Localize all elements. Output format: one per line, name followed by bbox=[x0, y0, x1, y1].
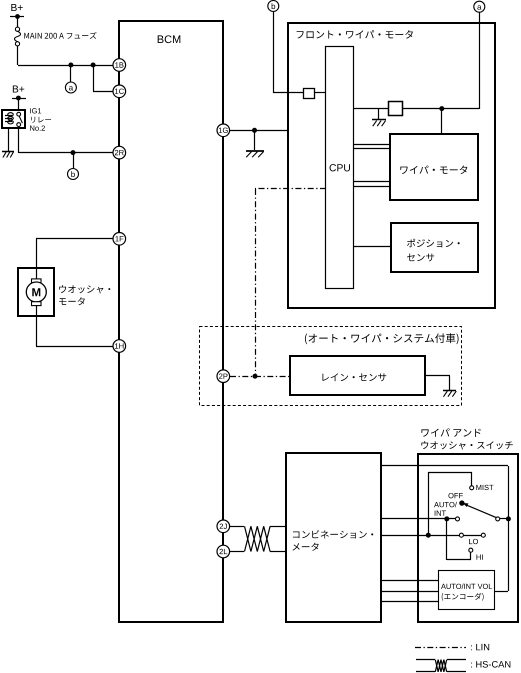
pin 2P bbox=[217, 370, 230, 383]
pin 1F bbox=[113, 233, 126, 246]
label MAIN 200 A fuse bbox=[24, 32, 96, 39]
combination meter box bbox=[286, 453, 381, 622]
power B+ terminal (top left) bbox=[11, 4, 22, 11]
ground (front wiper motor) bbox=[372, 119, 386, 121]
junction AUTO/INT bbox=[444, 516, 449, 521]
junction on LIN bus bbox=[253, 374, 258, 379]
node b (circle b, left) bbox=[68, 169, 79, 180]
front wiper motor assembly box bbox=[288, 23, 495, 308]
wire B+ to relay bbox=[18, 98, 20, 110]
legend HS-CAN sample bbox=[416, 659, 435, 661]
wire stub to ground bbox=[254, 130, 256, 150]
wire combination meter LO line bbox=[381, 535, 459, 537]
BCM module box bbox=[119, 21, 223, 622]
wire CPU to position sensor bbox=[353, 246, 391, 248]
wire pin 1F to washer motor bbox=[36, 238, 113, 240]
pin 1G bbox=[217, 124, 230, 137]
wiper motor box bbox=[390, 134, 478, 200]
wire stub to node a bbox=[70, 65, 72, 82]
ground (relay coil) bbox=[2, 151, 14, 153]
wiper and washer switch box bbox=[418, 454, 518, 622]
junction above wiper motor bbox=[439, 106, 444, 111]
relay IG1 No.2 bbox=[2, 110, 25, 128]
wire square to node a and wiper motor bbox=[402, 108, 479, 110]
wire node b to CPU bbox=[273, 12, 275, 93]
wire twisted pair to combination meter bbox=[270, 526, 286, 528]
position sensor box bbox=[391, 223, 478, 272]
wire MIST loop bbox=[428, 472, 430, 535]
node a (circle a, top) bbox=[474, 1, 485, 12]
wire washer motor to pin 1H bbox=[36, 316, 38, 346]
wire relay coil to ground bbox=[8, 128, 10, 151]
pin 1B bbox=[113, 59, 126, 72]
power B+ terminal (second) bbox=[13, 85, 24, 92]
label AUTO/INT VOL encoder bbox=[441, 584, 492, 589]
wire combination meter to switch common rail bbox=[381, 465, 508, 467]
auto wiper system dashed boundary bbox=[200, 327, 462, 406]
wire pair CPU to wiper motor (upper) bbox=[353, 144, 390, 146]
junction to pin 1C bbox=[91, 63, 96, 68]
wire B+ to fuse bbox=[17, 16, 19, 27]
wire combination meter AUTO/INT line bbox=[381, 518, 456, 520]
node a (circle a, left) bbox=[65, 82, 76, 93]
pin 2L bbox=[217, 545, 230, 558]
pin 2R bbox=[113, 146, 126, 159]
junction node a bbox=[68, 63, 73, 68]
connector square on b wire bbox=[304, 89, 315, 99]
label washer motor bbox=[59, 285, 110, 293]
junction arm to rail bbox=[506, 516, 511, 521]
wire stub to node b bbox=[73, 153, 75, 168]
wire pin 2P to junction bbox=[230, 376, 255, 378]
junction MIST/LO bbox=[426, 533, 431, 538]
washer motor symbol bbox=[36, 268, 38, 279]
wire fuse to pin 1B bbox=[17, 46, 19, 65]
junction on 1G wire bbox=[252, 128, 257, 133]
wire CPU to wiper motor power bbox=[353, 108, 388, 110]
label front wiper motor bbox=[297, 30, 413, 39]
label position sensor bbox=[407, 239, 460, 248]
ground (rain sensor) bbox=[443, 390, 456, 392]
label rain sensor bbox=[322, 373, 386, 381]
label OFF bbox=[448, 493, 462, 498]
label IG1 relay No.2 bbox=[30, 108, 41, 113]
label AUTO/INT bbox=[434, 502, 457, 508]
label combination meter bbox=[293, 530, 373, 538]
wire junction to pin 1C bbox=[93, 65, 95, 91]
switch common rail bbox=[508, 466, 510, 591]
pin 1C bbox=[113, 85, 126, 98]
wire pin 2L to twisted pair bbox=[230, 551, 244, 553]
legend HS-CAN text bbox=[471, 661, 510, 668]
wire AUTO/INT junction to HI contact bbox=[446, 519, 448, 560]
encoder AUTO/INT VOL box bbox=[439, 571, 495, 610]
label wiper motor bbox=[400, 166, 467, 175]
contact arm right bbox=[496, 517, 500, 521]
HS-CAN twisted pair bbox=[245, 526, 271, 551]
wire pair CPU to wiper motor (lower) bbox=[353, 181, 390, 183]
wire rain sensor to ground bbox=[425, 375, 450, 377]
legend LIN line sample bbox=[415, 647, 466, 649]
label auto wiper system bbox=[305, 333, 459, 344]
switch wiper arm bbox=[459, 500, 464, 505]
CPU U1 box bbox=[326, 47, 354, 289]
washer motor M1 box bbox=[18, 268, 54, 316]
ground (BCM 1G) bbox=[246, 150, 264, 152]
contact AUTO/INT bbox=[456, 517, 460, 521]
wire stub to ground (CPU) bbox=[378, 109, 380, 119]
label wiper and washer switch bbox=[421, 428, 480, 436]
fuse MAIN 200 A bbox=[15, 27, 19, 31]
rain sensor box bbox=[290, 356, 425, 395]
LIN bus wire CPU to rain sensor junction bbox=[255, 188, 326, 190]
wire pin 1G to front wiper motor bbox=[230, 130, 288, 132]
contact MIST bbox=[470, 486, 474, 490]
pin 1H bbox=[113, 340, 126, 353]
connector square on motor power wire bbox=[389, 102, 403, 116]
contact HI bbox=[469, 548, 473, 552]
wire relay to pin 2R bbox=[18, 128, 20, 153]
wire pin 2J to twisted pair bbox=[230, 526, 244, 528]
junction node b bbox=[71, 150, 76, 155]
contact LO pair bbox=[459, 533, 463, 537]
node b (circle b, top) bbox=[268, 1, 279, 12]
relay switch contacts bbox=[17, 112, 21, 116]
LIN bus wire junction to rain sensor bbox=[255, 376, 290, 378]
wires combination meter to encoder bbox=[381, 580, 439, 582]
pin 2J bbox=[217, 520, 230, 533]
legend LIN text bbox=[471, 644, 489, 650]
